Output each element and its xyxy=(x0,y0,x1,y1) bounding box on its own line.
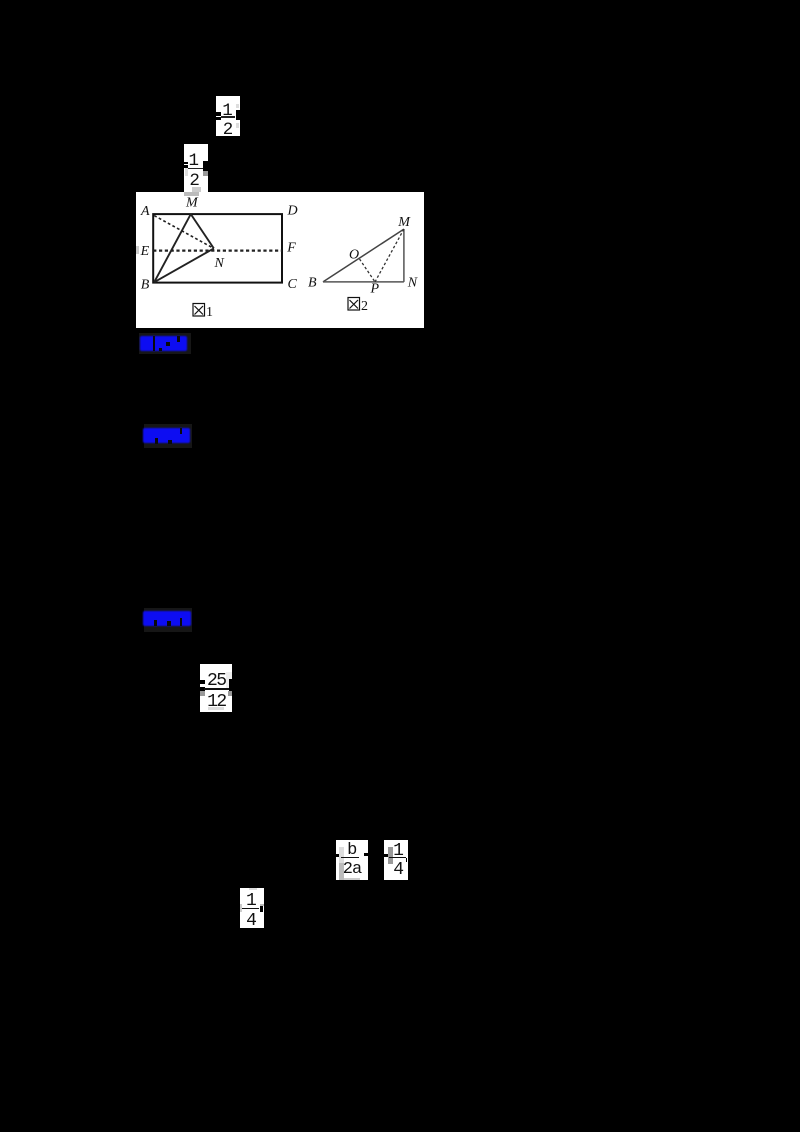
svg-text:F: F xyxy=(286,240,296,255)
svg-text:D: D xyxy=(286,203,297,218)
figure2 caption 图2 xyxy=(348,297,360,310)
fraction patch "=1/2" (first) xyxy=(216,96,240,137)
svg-text:O: O xyxy=(349,247,359,262)
svg-text:P: P xyxy=(369,281,379,296)
figure1 dashed line A-N xyxy=(154,215,214,248)
fraction patch "1/4," (second) xyxy=(240,888,264,928)
svg-text:N: N xyxy=(213,256,224,271)
fraction patch "=25/12" xyxy=(200,664,232,712)
figure1 solid line M-N xyxy=(191,214,214,248)
svg-text:C: C xyxy=(287,277,297,292)
blue label 2 (【详解】) xyxy=(144,424,192,448)
figure2 solid line M-N xyxy=(403,229,405,282)
figure2 solid line B-N xyxy=(323,281,404,283)
figure box (white panel with 图1 and 图2) xyxy=(136,192,424,328)
figure1 caption 图1 xyxy=(193,303,205,316)
figure2 solid line B-M xyxy=(323,229,404,282)
figure2 dashed line O-P xyxy=(359,259,375,282)
svg-text:M: M xyxy=(185,195,199,210)
fraction patch "=1/2" (second) xyxy=(184,144,208,192)
svg-text:M: M xyxy=(397,215,411,230)
fraction patch "1/4" (first) xyxy=(384,840,408,880)
svg-text:2: 2 xyxy=(361,299,368,314)
svg-text:N: N xyxy=(407,276,418,291)
blue label 1 (【分析】) xyxy=(139,333,192,354)
figure1 solid line B-N xyxy=(154,248,214,282)
svg-text:1: 1 xyxy=(206,305,213,320)
svg-text:E: E xyxy=(139,244,149,259)
blue label 3 (【点睛】) xyxy=(144,608,192,632)
figure2 dashed line M-P xyxy=(375,229,404,282)
figure1 dashed line E-F xyxy=(153,249,282,251)
svg-text:A: A xyxy=(140,204,150,219)
figure1 solid line M-B xyxy=(154,214,191,282)
fraction patch "b/2a" xyxy=(336,840,369,880)
figure1 rectangle ABCD xyxy=(153,214,282,283)
svg-text:B: B xyxy=(308,275,317,290)
svg-text:B: B xyxy=(141,277,150,292)
